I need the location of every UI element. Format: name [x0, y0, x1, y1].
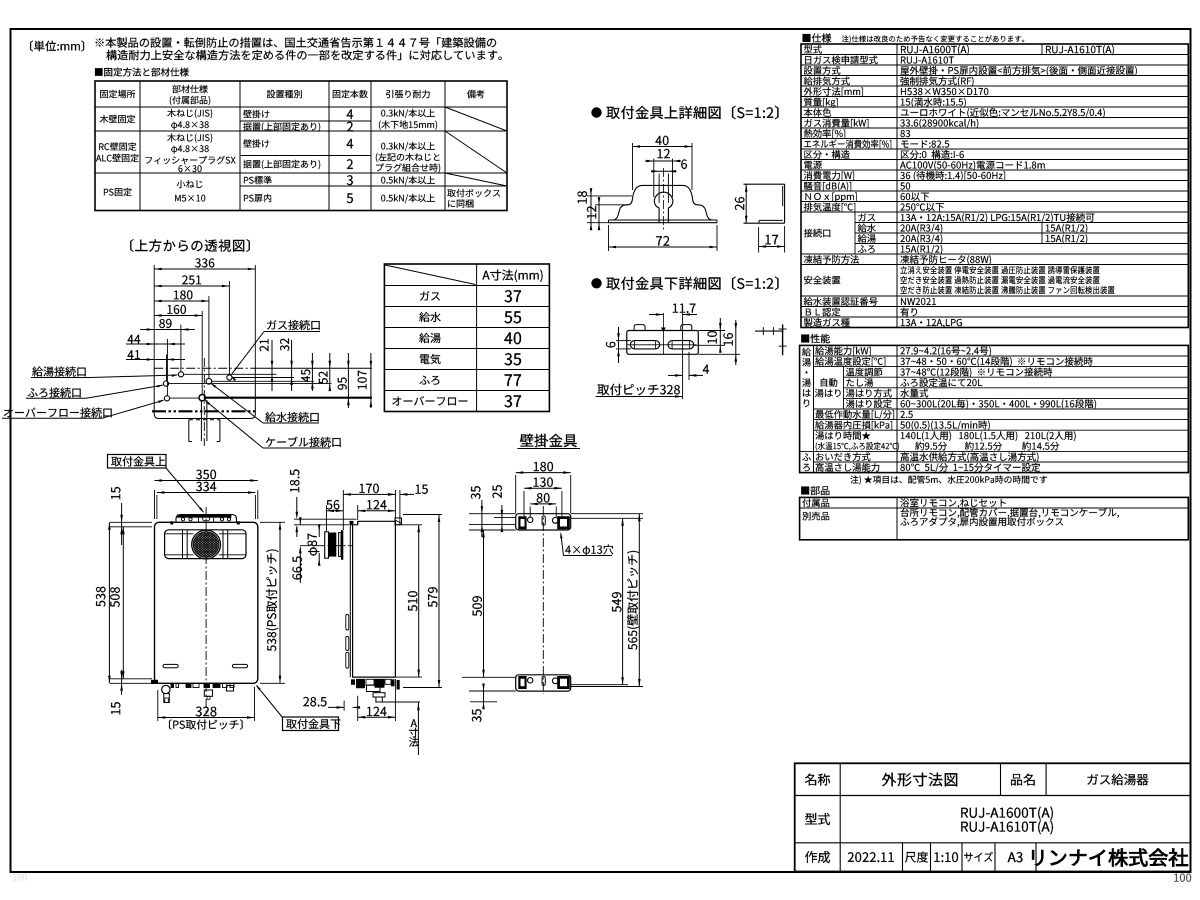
rear dim 180 — [515, 475, 517, 513]
plot number — [1174, 873, 1191, 881]
front label bracket-top — [108, 455, 167, 469]
bracket-bot pitch line — [682, 313, 684, 399]
plan dim 44 — [126, 343, 185, 345]
rear top keyhole left — [518, 516, 526, 529]
bracket-top side dim 26 — [745, 184, 748, 192]
side dim 66.5 — [299, 514, 301, 517]
bracket-bot slot right — [668, 341, 694, 349]
rear dim 80 — [529, 507, 531, 518]
front fan box — [165, 530, 246, 559]
plan dim 251 — [154, 285, 229, 287]
rear dim 25 — [501, 505, 503, 532]
unit note — [30, 40, 84, 51]
side body outline — [353, 521, 396, 677]
label kyuto-port — [32, 366, 85, 376]
port overflow — [164, 396, 169, 401]
bracket-top base plate — [609, 222, 718, 224]
plan dim 180 — [154, 300, 209, 302]
bracket-top dim 12b — [598, 197, 600, 230]
fixing table diagonal row1 — [445, 107, 507, 131]
port kyusui — [206, 378, 212, 384]
side dim 124 bottom — [357, 696, 359, 721]
side dim phi87 — [318, 528, 320, 537]
front dim 508 — [122, 527, 124, 679]
plan vdim 52 — [329, 353, 331, 391]
bracket-top left ext — [587, 195, 632, 197]
bracket-bot side view — [755, 330, 783, 332]
perf table grid — [800, 345, 1189, 472]
plan dim 41 — [126, 359, 185, 361]
bracket-bot slot left — [630, 341, 659, 349]
plan heavy chain line — [152, 410, 258, 412]
side front slots — [346, 615, 349, 631]
bracket-bot slot centerline — [628, 344, 697, 346]
plan ref line kyusui — [212, 380, 314, 382]
bracket-bot title bullet — [591, 278, 601, 288]
rear title — [520, 434, 577, 447]
side dim A — [382, 701, 420, 703]
installation note line1 — [96, 37, 497, 47]
perf heading — [801, 334, 830, 343]
bracket-top title — [606, 106, 778, 120]
plan ref line kyuto — [184, 373, 277, 375]
rear top bar — [516, 514, 571, 530]
front dim 328 — [157, 690, 159, 721]
port furo — [163, 381, 168, 386]
bracket-bot tab left — [634, 325, 645, 331]
front top bracket — [176, 515, 237, 523]
front fan circle — [192, 530, 221, 559]
bracket-bot dim 4 — [688, 352, 690, 380]
side dim 28.5 — [303, 697, 326, 707]
rear ext 35 bottom — [469, 690, 516, 692]
plan view title — [130, 239, 250, 252]
rear bot keyhole left — [518, 676, 526, 689]
rear top holes — [528, 517, 533, 522]
plan ref line heavy — [205, 397, 372, 399]
rear bot keyhole right — [557, 676, 570, 689]
plan vdim 32 — [291, 340, 293, 391]
rear dim 565 — [638, 514, 640, 687]
front dim 15 bottom — [121, 670, 123, 695]
bracket-top ext lines — [632, 143, 634, 190]
rear ext 549 565 — [571, 517, 643, 519]
front bottom fittings — [151, 680, 158, 684]
bracket-bot tab right — [681, 325, 692, 331]
fixing table diagonal row2 — [445, 131, 507, 173]
port gas — [227, 375, 232, 380]
bracket-top dim 12 — [645, 160, 681, 162]
rear dim 509 — [483, 530, 485, 677]
side dim 579 — [403, 514, 442, 516]
side wall bracket top — [395, 518, 402, 525]
bracket-top side view — [744, 183, 785, 185]
spec heading — [803, 33, 832, 42]
title block grid — [795, 763, 1191, 871]
bracket-top dim 72 — [608, 225, 610, 251]
bracket-top keyhole — [654, 192, 673, 223]
bracket-bot bar — [627, 331, 699, 355]
side dim 510 — [396, 524, 422, 526]
label kyusui-port — [265, 412, 318, 422]
parts table grid — [800, 497, 1189, 539]
front body outline — [155, 522, 258, 683]
bracket-top dim 6 — [651, 170, 677, 172]
front label bracket-bot — [283, 717, 339, 731]
side dim 170 — [342, 490, 344, 530]
front dim 538ps — [279, 522, 281, 683]
bracket-bot dim 6 — [616, 340, 631, 342]
rear bottom bar — [516, 675, 571, 691]
A-dim table grid — [384, 264, 549, 412]
bracket-bot dim 16 — [698, 353, 740, 355]
spec table grid — [801, 44, 1188, 328]
plan unit outline — [154, 368, 255, 418]
plan vdim 95 — [347, 353, 349, 408]
rear ext 509 — [469, 529, 516, 531]
plan ref line top — [255, 367, 372, 369]
plan dim 336 — [154, 268, 255, 270]
plan ref line gas — [232, 377, 294, 379]
label furo-port — [27, 387, 80, 397]
bracket-top title bullet — [591, 107, 601, 117]
plan cable wires — [200, 400, 202, 441]
front fan slats — [165, 533, 194, 535]
port kyuto — [178, 372, 183, 377]
label cable-port — [266, 437, 341, 447]
front dim 334 — [156, 495, 158, 519]
rear dim 549 — [622, 518, 624, 684]
side exhaust flange — [325, 532, 329, 558]
fixing table diagonal row3 — [445, 173, 507, 186]
bracket-top centerline — [663, 168, 665, 231]
front ext 538ps — [260, 521, 285, 523]
fixing table grid — [95, 81, 507, 211]
parts heading — [801, 486, 829, 495]
bracket-bot slot ticks — [634, 341, 636, 349]
front ext 15 bottom — [110, 678, 152, 680]
plan vdim 21 — [271, 340, 273, 391]
rear dim 35 top — [481, 500, 483, 537]
A-dim table texts — [482, 270, 542, 283]
perf table texts — [802, 348, 811, 357]
bracket-top profile — [609, 185, 718, 220]
plan dim 89 — [154, 329, 181, 331]
bracket-top side dim 17 — [758, 227, 760, 253]
installation note line2 — [106, 50, 502, 60]
fixing table texts — [100, 90, 135, 98]
bracket-bot dim 11.7 — [649, 314, 663, 316]
side exhaust ring — [341, 530, 343, 560]
bracket-top dim 18 — [590, 188, 592, 230]
bracket-bot dim 10 — [698, 330, 725, 332]
title block texts — [805, 774, 830, 786]
side bottom fittings — [351, 679, 355, 685]
port cable — [199, 395, 205, 401]
side dim 15 — [388, 493, 396, 496]
rear bot holes — [528, 678, 533, 683]
rear dim 35 bottom — [483, 684, 485, 709]
spec table texts — [804, 45, 822, 54]
rear ext 35 25 — [469, 513, 516, 515]
front bottom slots — [163, 664, 178, 667]
label gas-port — [267, 320, 320, 330]
rear top keyhole right — [557, 516, 570, 529]
bracket-bot center mark — [662, 313, 664, 354]
plan vent duct — [188, 420, 190, 442]
side dim 56 — [326, 505, 328, 531]
side exhaust tube — [329, 533, 337, 557]
side wall bracket bottom — [397, 680, 400, 690]
plan vdim 45 — [311, 353, 313, 391]
perf note — [850, 475, 1047, 484]
fixing table heading — [95, 68, 189, 77]
bracket-bot title — [606, 276, 778, 290]
plan extension lines — [153, 265, 155, 368]
side exhaust centerline — [300, 545, 352, 547]
rear label holes — [565, 544, 613, 555]
front dim 15 top — [121, 503, 123, 545]
front ext 15 top — [110, 521, 152, 523]
plan vdim 107 — [370, 353, 372, 408]
plan dim 160 — [154, 315, 202, 317]
bracket-bot pitch label — [597, 384, 680, 395]
side dim 18.5 — [294, 518, 357, 520]
rear centerline — [542, 506, 544, 694]
side top tab — [350, 521, 354, 525]
plan ref line furo — [169, 383, 332, 385]
front fan dividers — [182, 530, 184, 559]
bracket-top dim 40 — [633, 146, 693, 148]
rear dim 130 — [523, 491, 525, 516]
front centerline — [205, 507, 207, 713]
side dim 124 top — [357, 505, 359, 520]
front dim 538 — [108, 522, 110, 683]
parts table texts — [802, 498, 829, 507]
front dim 350 — [154, 490, 156, 519]
label overflow-port — [4, 407, 112, 417]
plan link overflow-cable — [170, 397, 199, 399]
plan centerline — [203, 358, 205, 446]
